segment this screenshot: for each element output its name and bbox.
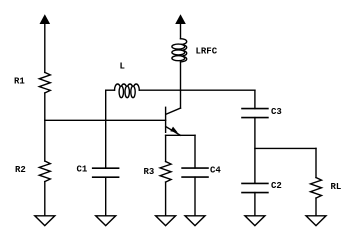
svg-text:LRFC: LRFC — [196, 47, 218, 57]
svg-text:L: L — [120, 62, 125, 72]
svg-text:RL: RL — [331, 182, 342, 192]
wire — [315, 148, 317, 177]
wire — [194, 177, 196, 216]
resistor R1 — [39, 72, 50, 93]
wire — [254, 118, 256, 184]
svg-text:R2: R2 — [15, 165, 26, 175]
ground — [306, 216, 326, 226]
ground — [35, 216, 55, 226]
wire — [315, 198, 317, 216]
svg-text:R3: R3 — [144, 167, 155, 177]
wire — [165, 135, 167, 161]
wire — [44, 182, 46, 216]
wire — [194, 135, 196, 168]
svg-text:C3: C3 — [271, 107, 282, 117]
wire L/C1 vertical — [105, 90, 107, 168]
wire output rail — [255, 147, 316, 149]
svg-text:R1: R1 — [14, 77, 25, 87]
wire — [44, 93, 46, 161]
wire — [180, 23, 182, 39]
wire — [165, 182, 167, 216]
inductor L — [106, 84, 140, 98]
capacitor C2 — [242, 183, 268, 192]
capacitor C1 — [93, 168, 119, 177]
wire base rail — [45, 119, 166, 121]
svg-text:C2: C2 — [271, 181, 282, 191]
wire — [180, 62, 182, 90]
wire collector rail — [139, 89, 255, 91]
wire emitter rail — [166, 134, 195, 136]
wire — [105, 177, 107, 216]
ground — [185, 216, 205, 226]
transistor Q1 — [166, 90, 181, 135]
wire — [254, 193, 256, 216]
capacitor C3 — [242, 109, 268, 118]
ground — [245, 216, 265, 226]
resistor RL — [311, 178, 322, 199]
ground — [156, 216, 176, 226]
inductor LRFC — [172, 39, 187, 62]
capacitor C4 — [182, 168, 208, 177]
ground — [96, 216, 116, 226]
wire — [254, 90, 256, 108]
power arrow VCC left — [40, 14, 51, 24]
wire — [44, 23, 46, 72]
resistor R3 — [160, 162, 171, 183]
svg-text:C4: C4 — [210, 166, 221, 176]
resistor R2 — [39, 161, 50, 182]
power arrow VCC right — [175, 14, 186, 24]
svg-text:C1: C1 — [77, 165, 88, 175]
